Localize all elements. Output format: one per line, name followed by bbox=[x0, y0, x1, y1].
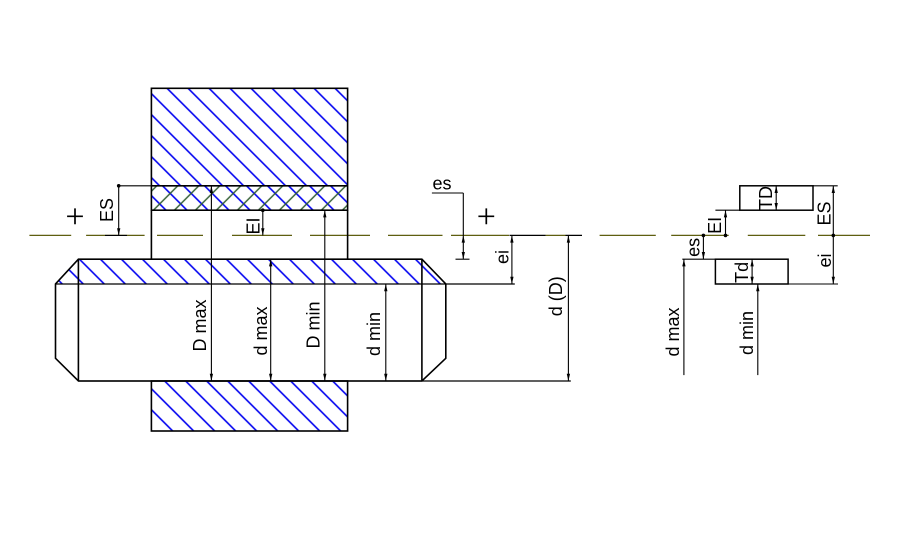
d max dimension bbox=[270, 259, 272, 381]
es dimension right bbox=[702, 235, 704, 259]
hole hatch fill bbox=[151, 88, 347, 186]
hole outline bbox=[151, 88, 347, 210]
Td tolerance zone box bbox=[715, 259, 788, 284]
black tick on axis at ei dim bbox=[510, 234, 546, 236]
black tick on axis at d(D) dim bbox=[566, 234, 583, 236]
svg-text:EI: EI bbox=[244, 217, 264, 234]
hole right wall extension bbox=[347, 210, 349, 259]
svg-text:d min: d min bbox=[364, 312, 384, 356]
D min dimension bbox=[324, 210, 326, 381]
ei dimension bbox=[511, 235, 513, 284]
svg-text:es: es bbox=[432, 174, 451, 194]
svg-text:d min: d min bbox=[737, 311, 757, 355]
d max reference line right bbox=[682, 258, 715, 260]
svg-text:ES: ES bbox=[815, 201, 835, 225]
shaft chamfer edge left bbox=[77, 259, 79, 381]
svg-text:TD: TD bbox=[756, 186, 776, 210]
shaft bottom extension line to d(D) bbox=[78, 380, 570, 382]
d max dimension right bbox=[683, 259, 685, 375]
EI reference line bbox=[715, 209, 739, 211]
svg-text:D max: D max bbox=[190, 299, 210, 351]
svg-text:ES: ES bbox=[97, 198, 117, 222]
d min dimension right bbox=[757, 284, 759, 375]
ES dimension far right bbox=[832, 186, 834, 236]
ei dimension far right bbox=[832, 235, 834, 284]
EI dimension right bbox=[725, 210, 727, 235]
D max dimension bbox=[210, 186, 212, 381]
Td internal double arrow bbox=[751, 259, 753, 284]
d min line across shaft extended to ei dim bbox=[56, 283, 515, 285]
d min dimension bbox=[385, 284, 387, 381]
TD internal double arrow bbox=[775, 186, 777, 210]
svg-text:ei: ei bbox=[815, 253, 835, 267]
svg-text:D min: D min bbox=[303, 301, 323, 348]
shaft Td band hatch bbox=[56, 259, 446, 284]
shaft outline hexagon bbox=[56, 259, 446, 381]
plus sign right bbox=[478, 208, 494, 224]
ES line (band top) bbox=[151, 185, 347, 187]
ES dimension bbox=[118, 186, 120, 236]
svg-text:EI: EI bbox=[705, 217, 725, 234]
svg-text:d max: d max bbox=[663, 307, 683, 356]
ES tick right bbox=[813, 185, 838, 187]
svg-text:es: es bbox=[683, 238, 703, 257]
hole left wall extension bbox=[150, 210, 152, 259]
axis centerline bbox=[29, 234, 870, 236]
shaft chamfer edge right bbox=[421, 259, 423, 381]
lower hole outline bbox=[151, 381, 347, 431]
Td bottom extension right bbox=[788, 283, 838, 285]
lower hole hatch bbox=[151, 381, 347, 431]
EI dimension bbox=[262, 210, 264, 235]
svg-text:Td: Td bbox=[732, 262, 752, 283]
svg-text:ei: ei bbox=[493, 250, 513, 264]
TD tolerance zone box bbox=[740, 186, 813, 210]
d (D) dimension bbox=[567, 235, 569, 381]
svg-text:d max: d max bbox=[251, 306, 271, 355]
plus sign left bbox=[67, 208, 83, 224]
svg-text:d (D): d (D) bbox=[546, 276, 566, 316]
hole tolerance band TD cross-hatch bbox=[151, 186, 347, 210]
